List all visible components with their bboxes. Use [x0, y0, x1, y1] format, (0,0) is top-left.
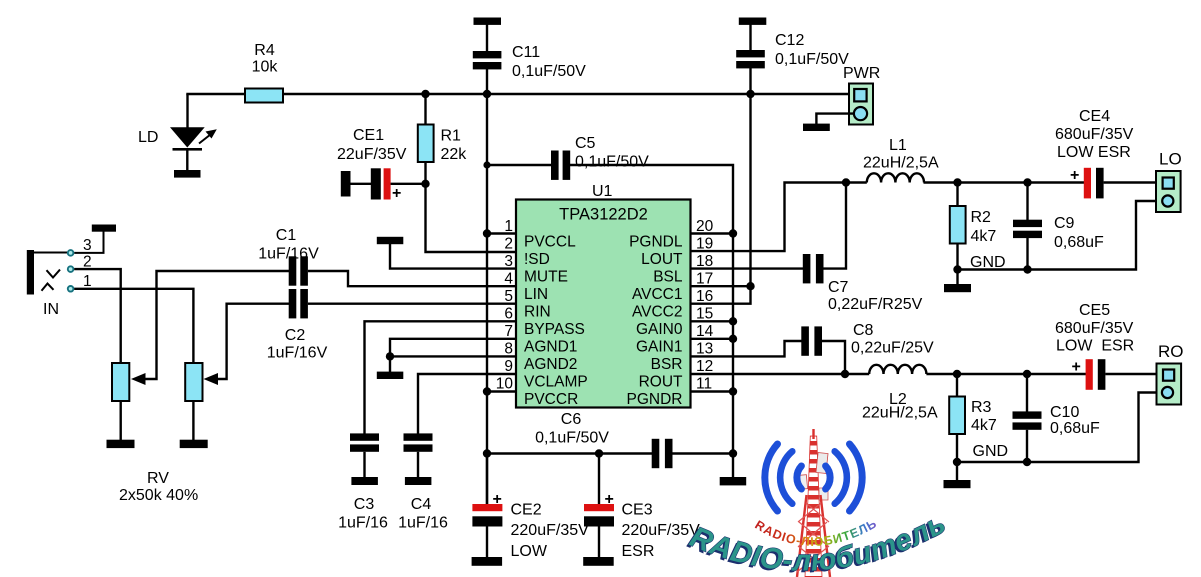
- svg-text:15: 15: [696, 306, 713, 323]
- svg-text:220uF/35V: 220uF/35V: [622, 522, 701, 539]
- svg-text:TPA3122D2: TPA3122D2: [559, 206, 648, 224]
- svg-text:22uH/2,5A: 22uH/2,5A: [863, 155, 939, 172]
- svg-text:4k7: 4k7: [971, 228, 997, 245]
- svg-text:0,22uF/R25V: 0,22uF/R25V: [828, 296, 923, 313]
- svg-text:CE3: CE3: [622, 502, 653, 519]
- U1 pin names left: [524, 234, 588, 409]
- svg-text:4: 4: [504, 271, 513, 288]
- node junction rail/R4-R1: [421, 90, 429, 98]
- svg-text:1uF/16V: 1uF/16V: [267, 345, 328, 362]
- ground under R2: [953, 265, 961, 273]
- svg-text:680uF/35V: 680uF/35V: [1055, 126, 1134, 143]
- svg-text:1: 1: [83, 273, 92, 290]
- wire VCLAMP pin9 to C4: [418, 374, 516, 434]
- svg-text:AVCC1: AVCC1: [632, 286, 683, 303]
- tower mast: [805, 436, 822, 577]
- svg-text:BYPASS: BYPASS: [524, 321, 585, 338]
- svg-text:11: 11: [696, 376, 712, 393]
- wire bottom PVCC line: [487, 452, 652, 454]
- svg-text:MUTE: MUTE: [524, 269, 568, 286]
- capacitor C4: [404, 433, 433, 440]
- svg-text:RV: RV: [147, 470, 169, 487]
- svg-text:R3: R3: [971, 399, 992, 416]
- svg-text:LOUT: LOUT: [641, 251, 683, 268]
- resistor R2: [953, 178, 961, 186]
- svg-text:RIN: RIN: [524, 304, 551, 321]
- logo arc right middle: [835, 451, 847, 503]
- svg-text:8: 8: [504, 341, 513, 358]
- svg-text:0,1uF/50V: 0,1uF/50V: [512, 63, 586, 80]
- capacitor CE4 electrolytic: [1084, 168, 1091, 199]
- svg-text:LOW: LOW: [511, 543, 548, 560]
- wire RV1 wiper to C1: [136, 271, 290, 379]
- svg-text:GND: GND: [973, 443, 1009, 460]
- svg-text:LOW ESR: LOW ESR: [1056, 338, 1134, 355]
- wire AVCC vertical: [691, 94, 751, 304]
- logo arc left middle: [780, 451, 792, 503]
- svg-text:22uH/2,5A: 22uH/2,5A: [862, 405, 938, 422]
- U1 pin names right: [627, 234, 684, 409]
- resistor R4: [245, 89, 283, 103]
- svg-text:22k: 22k: [441, 146, 468, 163]
- svg-text:0,1uF/50V: 0,1uF/50V: [775, 51, 849, 68]
- svg-text:PWR: PWR: [843, 65, 880, 82]
- svg-text:GAIN1: GAIN1: [636, 339, 683, 356]
- wire PWR ground: [816, 114, 854, 124]
- svg-text:C7: C7: [828, 279, 849, 296]
- svg-text:+: +: [1072, 359, 1081, 376]
- capacitor C6: [652, 439, 660, 468]
- node PGNDR pin11 to bus: [691, 390, 734, 392]
- tower antenna top: [812, 429, 814, 439]
- node GAIN1 pin14 to bus: [691, 338, 734, 340]
- svg-text:0,1uF/50V: 0,1uF/50V: [535, 430, 609, 447]
- logo arc left outer: [765, 444, 778, 511]
- svg-text:+: +: [493, 491, 502, 508]
- svg-text:5: 5: [504, 288, 513, 305]
- svg-text:PGNDL: PGNDL: [629, 234, 683, 251]
- resistor R1 22k: [426, 94, 517, 252]
- capacitor C3: [350, 433, 379, 440]
- svg-text:0,22uF/25V: 0,22uF/25V: [851, 340, 934, 357]
- U1 pin numbers right: [696, 218, 714, 393]
- wire right GND line: [957, 393, 1162, 463]
- svg-text:C5: C5: [575, 135, 596, 152]
- wire top power rail: [188, 94, 850, 95]
- node PVCCR pin10: [487, 390, 516, 392]
- svg-text:220uF/35V: 220uF/35V: [511, 522, 590, 539]
- svg-text:AGND2: AGND2: [524, 356, 577, 373]
- inductor L2: [869, 365, 926, 374]
- svg-text:10k: 10k: [252, 59, 279, 76]
- wire BYPASS pin6 to C3: [365, 321, 517, 434]
- wire RV2 wiper to C2: [208, 304, 289, 379]
- ground under R3: [953, 458, 961, 466]
- node junction rail/C12-AVCC: [746, 90, 754, 98]
- svg-text:ESR: ESR: [622, 543, 655, 560]
- capacitor C2: [289, 289, 297, 318]
- wire IN pin2 to RV1: [74, 269, 121, 363]
- svg-text:12: 12: [696, 358, 713, 375]
- svg-text:+: +: [1070, 167, 1079, 184]
- svg-text:C6: C6: [561, 411, 582, 428]
- svg-text:IN: IN: [43, 301, 59, 318]
- svg-text:U1: U1: [592, 183, 613, 200]
- svg-text:0,68uF: 0,68uF: [1050, 420, 1100, 437]
- capacitor C12: [739, 18, 767, 25]
- svg-text:+: +: [392, 185, 401, 202]
- logo arc right inner: [826, 466, 831, 489]
- ground above MUTE: [377, 237, 404, 244]
- resistor R3: [953, 370, 961, 378]
- capacitor C11: [474, 18, 502, 25]
- capacitor C7: [691, 267, 804, 269]
- node AVCC1 pin17: [691, 285, 751, 287]
- svg-text:!SD: !SD: [524, 251, 550, 268]
- node PVCCL pin1: [487, 232, 516, 234]
- svg-text:7: 7: [504, 323, 513, 340]
- svg-text:C9: C9: [1054, 215, 1075, 232]
- svg-text:BSL: BSL: [653, 269, 683, 286]
- svg-text:C3: C3: [354, 496, 375, 513]
- node junction rail/C11: [483, 90, 491, 98]
- ground under RV1: [107, 440, 135, 448]
- node PGNDL pin20 to bus: [691, 232, 734, 234]
- svg-text:C4: C4: [411, 496, 432, 513]
- svg-text:GAIN0: GAIN0: [636, 321, 683, 338]
- svg-text:3: 3: [83, 237, 92, 254]
- capacitor C5: [487, 164, 552, 166]
- svg-text:1uF/16V: 1uF/16V: [258, 246, 319, 263]
- svg-text:9: 9: [504, 358, 513, 375]
- tower panels: [816, 453, 828, 474]
- svg-text:680uF/35V: 680uF/35V: [1055, 320, 1134, 337]
- svg-text:4k7: 4k7: [971, 417, 997, 434]
- svg-text:17: 17: [696, 271, 713, 288]
- svg-text:C2: C2: [285, 327, 306, 344]
- svg-text:R2: R2: [971, 209, 992, 226]
- svg-text:LIN: LIN: [524, 286, 548, 303]
- capacitor CE1 electrolytic: [341, 171, 351, 197]
- svg-text:22uF/35V: 22uF/35V: [337, 146, 407, 163]
- svg-text:ROUT: ROUT: [639, 374, 683, 391]
- capacitor CE2 electrolytic: [486, 454, 488, 505]
- svg-text:PGNDR: PGNDR: [627, 391, 683, 408]
- svg-text:2: 2: [504, 236, 513, 253]
- wire MUTE pin3 to ground: [390, 244, 516, 269]
- ground under AGND: [377, 372, 404, 379]
- tower legs: [797, 495, 807, 577]
- wire C2 to RIN: [308, 303, 516, 305]
- svg-text:PVCCR: PVCCR: [524, 391, 578, 408]
- U1 pin numbers left: [496, 218, 514, 393]
- connector PWR: [849, 84, 873, 125]
- capacitor C10: [1023, 370, 1031, 378]
- svg-text:L1: L1: [889, 137, 907, 154]
- svg-text:BSR: BSR: [651, 356, 683, 373]
- node GAIN0 pin15 to bus: [691, 320, 734, 322]
- connector LO: [1156, 171, 1181, 212]
- capacitor C8: [691, 341, 802, 356]
- LED LD: [186, 94, 188, 128]
- IN jack connector: [27, 250, 34, 295]
- wire AGND2 pin8: [390, 355, 516, 357]
- svg-text:CE1: CE1: [353, 127, 384, 144]
- op-amp chip U1 TPA3122D2: [516, 200, 691, 408]
- svg-text:AVCC2: AVCC2: [632, 304, 683, 321]
- svg-text:R1: R1: [441, 128, 462, 145]
- wire AGND1 pin7: [390, 339, 516, 372]
- svg-text:1uF/16: 1uF/16: [338, 515, 388, 532]
- ground right of C6: [732, 454, 734, 478]
- svg-text:LO: LO: [1159, 150, 1182, 169]
- svg-text:16: 16: [696, 288, 713, 305]
- wire PVCC vertical bus: [486, 94, 488, 504]
- inductor L1: [867, 173, 924, 182]
- capacitor CE5 electrolytic: [1086, 359, 1093, 390]
- capacitor C9: [1023, 178, 1031, 186]
- logo arc right outer: [850, 444, 863, 511]
- ground under LED: [174, 170, 201, 178]
- svg-text:LD: LD: [138, 129, 158, 146]
- svg-text:PVCCL: PVCCL: [524, 234, 576, 251]
- logo arc left inner: [797, 466, 802, 489]
- svg-text:C11: C11: [512, 44, 540, 61]
- capacitor C1: [289, 256, 297, 285]
- svg-text:+: +: [605, 491, 614, 508]
- svg-text:1uF/16: 1uF/16: [398, 515, 448, 532]
- svg-text:0,1uF/50V: 0,1uF/50V: [575, 154, 649, 171]
- svg-text:0,68uF: 0,68uF: [1054, 234, 1104, 251]
- wire ROUT pin12: [691, 373, 870, 375]
- svg-text:RO: RO: [1158, 342, 1184, 361]
- svg-text:6: 6: [504, 306, 513, 323]
- svg-text:C10: C10: [1050, 404, 1079, 421]
- svg-text:10: 10: [496, 376, 514, 393]
- wire C1 to LIN: [308, 271, 516, 286]
- svg-text:14: 14: [696, 323, 714, 340]
- capacitor CE3 electrolytic: [598, 454, 600, 505]
- potentiometer RV2: [185, 363, 202, 401]
- svg-text:13: 13: [696, 341, 713, 358]
- wire left GND line: [958, 201, 1163, 270]
- svg-text:CE2: CE2: [511, 502, 542, 519]
- ground under RV2: [180, 440, 208, 448]
- svg-text:VCLAMP: VCLAMP: [524, 374, 588, 391]
- potentiometer RV1: [112, 363, 129, 401]
- svg-text:2x50k 40%: 2x50k 40%: [119, 487, 198, 504]
- svg-text:CE4: CE4: [1079, 108, 1110, 125]
- svg-text:AGND1: AGND1: [524, 339, 577, 356]
- svg-text:C12: C12: [775, 32, 804, 49]
- svg-text:C1: C1: [276, 227, 297, 244]
- svg-text:R4: R4: [254, 42, 275, 59]
- svg-text:CE5: CE5: [1079, 302, 1110, 319]
- svg-text:LOW ESR: LOW ESR: [1057, 144, 1131, 161]
- wire LOUT pin19: [691, 183, 867, 252]
- wire IN pin1 to RV2: [74, 289, 193, 363]
- connector RO: [1157, 364, 1182, 405]
- svg-text:C8: C8: [853, 322, 874, 339]
